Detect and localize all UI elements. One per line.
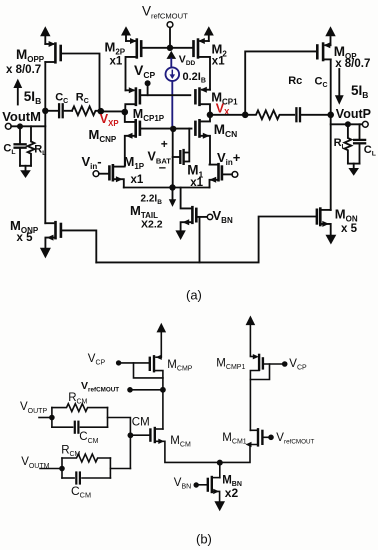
wire right column M_OP drain to M_ON drain [330,59,332,210]
svg-text:x1: x1 [212,56,225,68]
wire R_CM C_CM loop verticals lower [62,458,110,478]
capacitor Cc (left) [45,110,57,112]
wire VoutP terminal branch [331,123,363,125]
label 5IB right [351,83,368,100]
label Cc right [315,75,328,89]
label V_BN (b) [174,477,191,491]
label V_BN (a) [213,208,233,225]
node VoutP dot [327,112,334,119]
label M_OP [334,44,371,70]
label M_ONP [10,218,39,244]
label RL right [334,137,346,151]
transistor M_CNP [125,112,136,122]
label R_CM upper [68,392,87,406]
label V_CP (b left) [88,353,106,367]
label CM [132,417,150,429]
label M_OPP [6,47,45,76]
label M_ON [335,207,358,235]
power VDD arrow for M2P [125,35,127,41]
transistor M_ON [316,210,319,224]
wire V_XP node [101,110,125,112]
wire top rail (gates of M2P and M2) [141,47,193,49]
ground under M_TAIL [175,230,185,240]
label RL left [34,143,46,157]
wire VrefCMOUT circle to top rail [169,28,171,45]
svg-text:x 5: x 5 [341,223,358,235]
wire V_CP to cascode gate rail [147,83,149,95]
power VDD arrow for M_CMP1 [249,326,251,356]
svg-text:x1: x1 [131,174,144,186]
wire M_CMP1 diode connection [250,364,269,380]
node VrefCMOUT terminal dot (b left) [127,387,133,393]
transistor M_CM1 [250,429,258,431]
label Cc left [55,92,68,106]
node V_OUTM dot [59,466,65,472]
wire cascode N gate rail [140,128,192,130]
label C_CM lower [71,484,91,500]
annotation 5IB current arrow (right, down) [338,69,340,95]
transistor M_TAIL [181,188,193,209]
node VoutM terminal circle [5,123,11,129]
node V_CP dot (b right) [282,361,288,367]
transistor M_OPP [45,43,53,45]
label M_1 [187,163,203,190]
power VDD arrow for M_OP [330,37,332,45]
label VrefCMOUT (b left, bold) [81,380,119,393]
svg-text:VoutM: VoutM [2,109,41,124]
capacitor CL (left) [19,126,21,143]
current source 0.2IB [166,67,180,81]
wire current source down to cascode gate rail [171,81,173,126]
wire V_OUTM lead [40,468,62,470]
capacitor Cc (right) [295,108,297,121]
label V_in- [82,154,102,171]
transistor M_OP [326,44,331,46]
wire join dot down to M_BN [219,463,221,478]
svg-text:x 5: x 5 [17,232,34,244]
wire VoutM terminal [11,125,45,127]
node V_OUTP dot [49,415,55,421]
label 2.2IB [141,194,163,206]
node VrefCMOUT terminal circle [167,22,173,28]
power VDD arrow for M_OPP [44,37,46,45]
transistor M_1P [99,173,110,175]
wire cascode P gate rail [141,94,190,96]
wire RL CL bottom join right [348,163,360,165]
wire V_BN rail [199,217,201,263]
wire lower network output to CM column [110,468,130,470]
transistor M_1 [222,173,232,175]
wire V_OUTP lead [39,417,52,419]
label CL right [364,144,376,158]
label M_CM [170,435,191,449]
label M_CP1P [133,107,165,123]
node V_X branch dot (to M_OP gate) [242,112,249,119]
label M_CN [214,122,238,139]
node VrefCMOUT dot (b right) [268,435,274,441]
node V_XP drain junction dot [122,109,129,116]
label V_CP (a) [134,62,155,80]
transistor M_CMP1 [250,356,255,358]
label M2 [212,42,228,68]
label VDD [179,54,196,68]
wire M_CMP diode connection [134,363,163,378]
svg-text:X2.2: X2.2 [141,219,163,231]
label V_OUTP [20,401,47,415]
annotation 2.2IB tail current arrow [172,191,174,199]
svg-text:x1: x1 [110,56,123,68]
node V_X dot [207,112,214,119]
label M_BN [222,474,242,499]
svg-text:–: – [159,160,166,175]
label V_X [216,101,230,117]
label (b) [196,532,212,547]
label 5IB left [24,89,41,106]
svg-text:(a): (a) [186,288,202,303]
label M_TAIL [130,203,163,231]
label V_CP (b right) [289,358,307,372]
node gate rail dot (current source tap) [170,126,176,132]
label V_in+ [217,150,241,167]
wire CL RL bottom join [20,165,31,167]
wire left column M_OPP drain to M_ONP drain [44,62,46,223]
annotation 5IB current arrow (left, up) [17,88,19,105]
capacitor C_CM upper [52,426,73,428]
svg-text:x 8/0.7: x 8/0.7 [6,64,41,76]
resistor RL (left) [28,126,35,166]
label V_BAT with polarity [148,137,172,175]
label VoutP [336,107,371,121]
node M_CMP drain dot [160,387,166,393]
ground under CL RL [20,170,31,178]
node V_CP dot [145,80,151,86]
capacitor CL (right) [359,124,361,138]
wire R_CM C_CM loop verticals upper [52,408,108,428]
svg-text:x 8/0.7: x 8/0.7 [335,58,370,70]
node V_BN dot (b) [194,482,199,487]
battery V_BAT (MOS cap) [173,156,180,158]
label M_CMP [167,359,192,373]
ground under M_ONP [40,248,51,259]
svg-text:Rc: Rc [288,75,302,87]
label (a) [186,288,202,303]
svg-text:VoutP: VoutP [336,107,371,121]
label M_1P [124,154,145,186]
svg-text:(b): (b) [196,532,212,547]
power VDD arrow for M2 [208,35,210,41]
ground under M_BN [214,501,225,511]
label M_CNP [89,127,117,144]
label VrefCMOUT (top terminal) [142,4,188,21]
label Rc right [288,75,302,87]
label R_CM lower [61,444,80,458]
label Rc left [76,92,89,106]
transistor M_BN [213,477,220,479]
wire V_X up to M_OP gate [245,51,316,114]
node CL junction dot [17,123,23,129]
node V_XP dot (junction to M_OPP gate line) [98,108,105,115]
node CM dot [127,432,133,438]
ground under RL CL right [348,168,359,176]
node V_BN terminal circle (a) [207,214,212,219]
transistor M2 [200,40,209,42]
transistor M2P [126,40,135,42]
power VDD arrow above current source [167,51,177,59]
resistor Rc (right) [245,110,294,119]
label M2P [105,40,126,68]
svg-text:CM: CM [132,417,150,429]
transistor M_CN [200,115,211,122]
svg-text:+: + [161,137,168,151]
label 0.2IB [183,71,206,85]
node V_in- terminal circle [93,171,99,177]
node top rail junction dot [167,45,173,51]
label M_CMP1 [216,358,245,372]
transistor M_CMP [156,356,161,358]
node sources join dot [217,460,223,466]
ground under M_ON [326,235,337,245]
node VoutP terminal circle [362,121,368,127]
wire center column gate rail to tail [172,129,174,188]
transistor M_CP1P [126,89,134,91]
wire VrefCMOUT to M_CMP drain [130,389,163,391]
label M_CP1 [211,89,238,106]
wire upper network output to CM [108,418,131,469]
node RL junction dot right [345,121,351,127]
capacitor C_CM lower [62,477,74,479]
label C_CM upper [79,431,98,445]
label CL left [3,142,15,156]
wire tail node [124,187,210,189]
node VoutM junction dot [42,108,48,114]
node tail dot [169,184,175,190]
wire M_CMP drain to M_CM drain [162,390,164,429]
transistor M_CP1 [202,89,210,91]
resistor Rc (left) [72,106,98,115]
node V_in+ terminal circle [232,172,238,178]
label VoutM [2,109,41,124]
transistor M_ONP [45,222,53,224]
resistor RL (right) [345,124,352,163]
label VrefCMOUT (b right) [276,432,314,446]
resistor R_CM upper [52,404,108,412]
power VDD arrow for M_CMP [160,333,162,356]
resistor R_CM lower [62,454,110,462]
node V_CP dot (b left) [116,360,121,365]
svg-text:x2: x2 [225,486,239,500]
label V_OUTM [21,456,49,470]
transistor M_CM [155,428,163,430]
label V_XP [100,112,119,128]
label M_CM1 [222,432,246,446]
wire V_X to Rc [210,114,245,116]
